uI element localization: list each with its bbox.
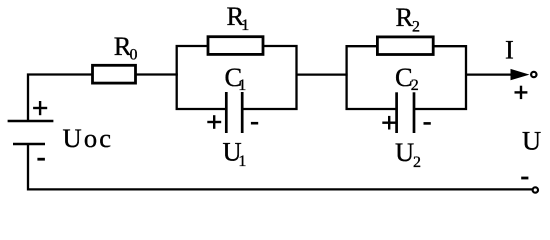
battery Uoc negative plate [13,143,45,146]
battery Uoc positive plate [8,120,54,123]
polarity minus of C2 [424,122,431,125]
svg-text:1: 1 [238,77,246,94]
wire RC network 2 right side (top-right, right vertical, bottom-right) [414,46,467,109]
polarity minus of output [521,177,528,180]
polarity plus of C1 [207,115,221,129]
positive output terminal [531,72,536,77]
polarity plus of output [515,86,528,99]
wire RC network 2 left side (top-left, left vertical, bottom-left) [347,46,397,109]
polarity plus of battery [33,101,47,115]
svg-text:1: 1 [241,17,249,34]
svg-text:2: 2 [411,77,419,94]
resistor R0 [93,65,136,83]
negative output terminal [533,187,538,192]
current arrow I [511,69,530,80]
wire RC network 1 to RC network 2 [297,73,348,75]
polarity plus of C2 [382,116,396,130]
wire battery negative terminal along bottom to output [28,144,532,190]
svg-text:1: 1 [238,153,246,170]
resistor R2 [377,37,433,55]
wire R0 to RC network 1 [136,73,178,75]
svg-text:R: R [396,2,414,32]
polarity minus of battery [37,158,45,161]
svg-text:Uoc: Uoc [63,123,114,153]
resistor R1 [208,37,263,55]
capacitor C1 [226,92,242,133]
wire RC network 1 right side (top-right, right vertical, bottom-right) [242,46,297,109]
capacitor C2 [397,92,414,133]
polarity minus of C1 [251,122,258,125]
svg-text:2: 2 [412,19,420,36]
wire RC network 1 left side (top-left, left vertical, bottom-left) [177,46,227,109]
svg-text:U: U [395,137,414,167]
wire RC network 2 to output terminal [466,73,512,75]
svg-text:2: 2 [413,154,421,171]
svg-text:0: 0 [130,47,138,64]
svg-text:I: I [505,35,514,65]
svg-text:U: U [522,126,541,156]
wire battery positive terminal up to R0 [28,75,93,121]
